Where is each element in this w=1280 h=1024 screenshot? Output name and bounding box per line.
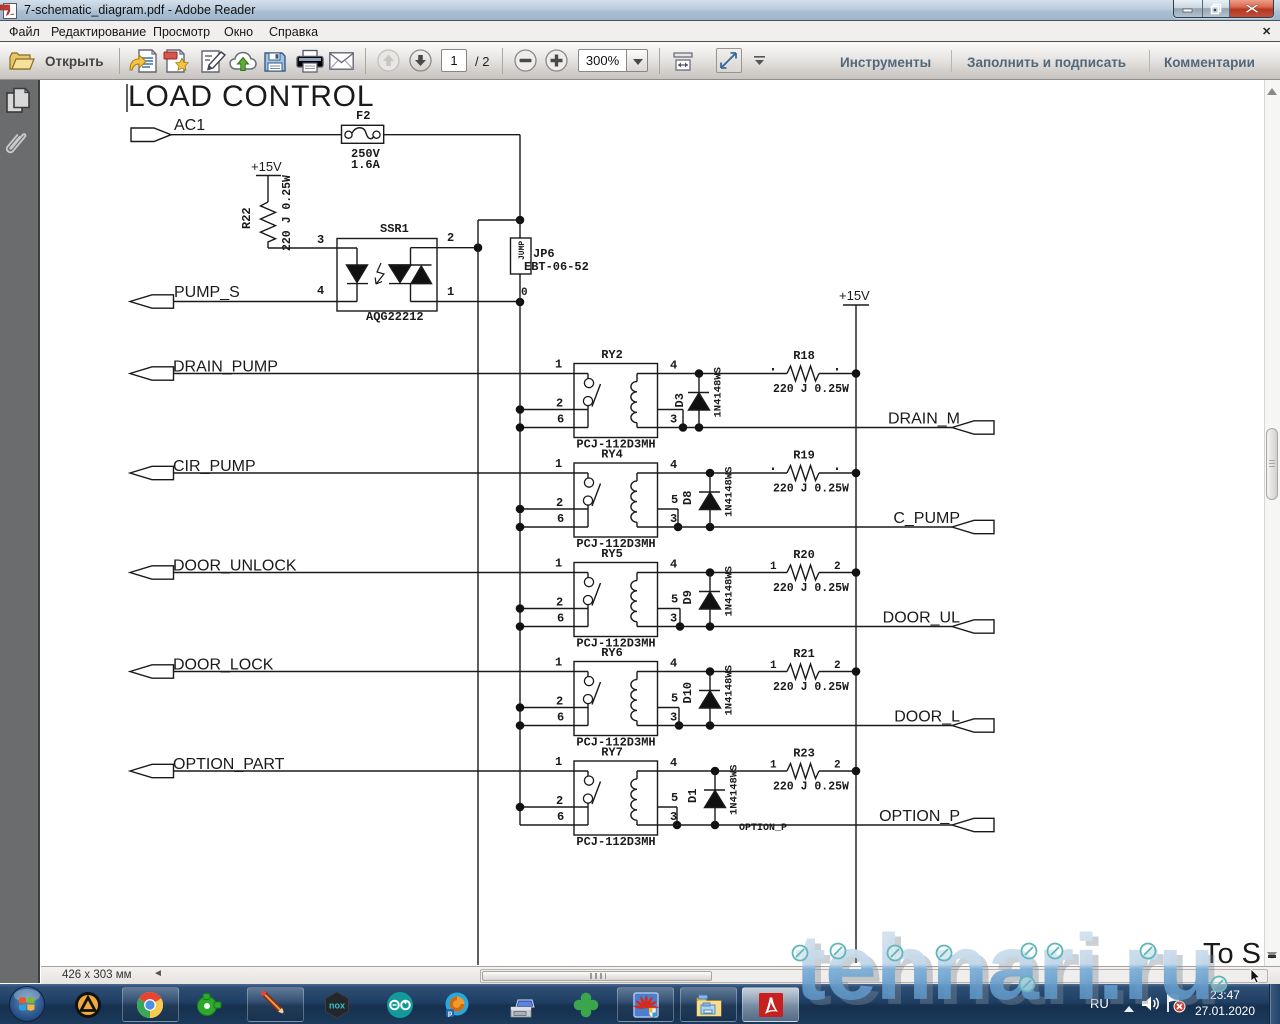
svg-text:+15V: +15V [839, 288, 870, 303]
svg-text:3: 3 [670, 612, 677, 626]
svg-text:2: 2 [834, 660, 841, 672]
svg-text:6: 6 [557, 512, 564, 526]
svg-text:1: 1 [555, 557, 562, 571]
svg-text:RY4: RY4 [601, 448, 623, 462]
svg-text:6: 6 [557, 810, 564, 824]
svg-text:EBT-06-52: EBT-06-52 [524, 260, 589, 274]
svg-text:4: 4 [670, 558, 677, 572]
svg-text:3: 3 [317, 233, 324, 247]
svg-text:4: 4 [670, 458, 677, 472]
svg-text:3: 3 [670, 512, 677, 526]
svg-text:2: 2 [447, 231, 454, 245]
svg-text:nox: nox [329, 1001, 345, 1011]
svg-text:OPTION_P: OPTION_P [739, 823, 787, 834]
svg-text:5: 5 [671, 593, 678, 607]
svg-text:1: 1 [555, 755, 562, 769]
svg-text:6: 6 [557, 711, 564, 725]
svg-text:220 J 0.25W: 220 J 0.25W [773, 582, 849, 595]
svg-text:3: 3 [670, 810, 677, 824]
svg-text:220 J 0.25W: 220 J 0.25W [773, 681, 849, 694]
svg-text:4: 4 [317, 284, 324, 298]
svg-text:JUMP: JUMP [518, 241, 527, 260]
svg-text:F2: F2 [356, 109, 370, 123]
svg-text:RY7: RY7 [601, 746, 623, 760]
svg-text:AQG22212: AQG22212 [366, 310, 424, 324]
svg-text:p: p [448, 1011, 452, 1018]
svg-text:1N4148WS: 1N4148WS [724, 467, 736, 517]
svg-text:1: 1 [447, 285, 454, 299]
svg-text:2: 2 [556, 397, 563, 411]
svg-text:1: 1 [770, 561, 777, 573]
svg-text:PUMP_S: PUMP_S [174, 284, 240, 301]
svg-text:1: 1 [555, 457, 562, 471]
svg-text:SSR1: SSR1 [380, 222, 409, 236]
svg-text:R22: R22 [240, 207, 254, 229]
svg-text:R20: R20 [793, 548, 815, 562]
svg-text:5: 5 [671, 493, 678, 507]
svg-text:PCJ-112D3MH: PCJ-112D3MH [576, 835, 655, 849]
svg-text:2: 2 [556, 596, 563, 610]
svg-text:DOOR_UL: DOOR_UL [883, 610, 960, 627]
svg-text:2: 2 [834, 760, 841, 772]
svg-text:2: 2 [556, 794, 563, 808]
svg-text:2: 2 [556, 695, 563, 709]
svg-text:4: 4 [670, 359, 677, 373]
svg-text:OPTION_P: OPTION_P [879, 808, 960, 825]
svg-text:DRAIN_M: DRAIN_M [888, 411, 960, 428]
svg-text:220 J 0.25W: 220 J 0.25W [773, 781, 849, 794]
svg-text:5: 5 [671, 791, 678, 805]
svg-text:3: 3 [670, 711, 677, 725]
svg-text:D3: D3 [673, 393, 687, 407]
svg-text:6: 6 [557, 612, 564, 626]
svg-text:JP6: JP6 [533, 247, 555, 261]
svg-text:3: 3 [670, 413, 677, 427]
svg-text:6: 6 [557, 413, 564, 427]
svg-text:tehnari.ru: tehnari.ru [795, 915, 1214, 1019]
svg-text:D9: D9 [681, 590, 695, 604]
svg-text:4: 4 [670, 756, 677, 770]
svg-text:1: 1 [770, 760, 777, 772]
svg-text:LOAD CONTROL: LOAD CONTROL [128, 80, 374, 113]
svg-text:4: 4 [670, 657, 677, 671]
svg-text:C_PUMP: C_PUMP [893, 510, 960, 527]
svg-text:1: 1 [555, 656, 562, 670]
svg-text:0: 0 [521, 287, 528, 299]
svg-text:R19: R19 [793, 449, 815, 463]
svg-text:D1: D1 [686, 789, 700, 803]
svg-text:AC1: AC1 [174, 117, 205, 134]
svg-text:R18: R18 [793, 349, 815, 363]
svg-text:1: 1 [555, 358, 562, 372]
svg-text:5: 5 [671, 692, 678, 706]
svg-text:R23: R23 [793, 747, 815, 761]
svg-text:D10: D10 [681, 682, 695, 704]
svg-text:RY5: RY5 [601, 547, 623, 561]
svg-text:2: 2 [834, 561, 841, 573]
svg-text:2: 2 [556, 496, 563, 510]
svg-text:1.6A: 1.6A [351, 158, 381, 172]
svg-text:1N4148WS: 1N4148WS [729, 765, 741, 815]
svg-text:220 J 0.25W: 220 J 0.25W [281, 175, 294, 251]
svg-text:+15V: +15V [251, 159, 282, 174]
svg-text:1N4148WS: 1N4148WS [724, 566, 736, 616]
svg-text:220 J 0.25W: 220 J 0.25W [773, 483, 849, 496]
svg-text:RY6: RY6 [601, 646, 623, 660]
svg-text:220 J 0.25W: 220 J 0.25W [773, 383, 849, 396]
svg-text:DOOR_L: DOOR_L [894, 709, 960, 726]
svg-text:D8: D8 [681, 491, 695, 505]
svg-text:1N4148WS: 1N4148WS [713, 367, 725, 417]
svg-text:1N4148WS: 1N4148WS [724, 665, 736, 715]
svg-text:R21: R21 [793, 647, 815, 661]
svg-text:1: 1 [770, 660, 777, 672]
svg-text:RY2: RY2 [601, 348, 623, 362]
